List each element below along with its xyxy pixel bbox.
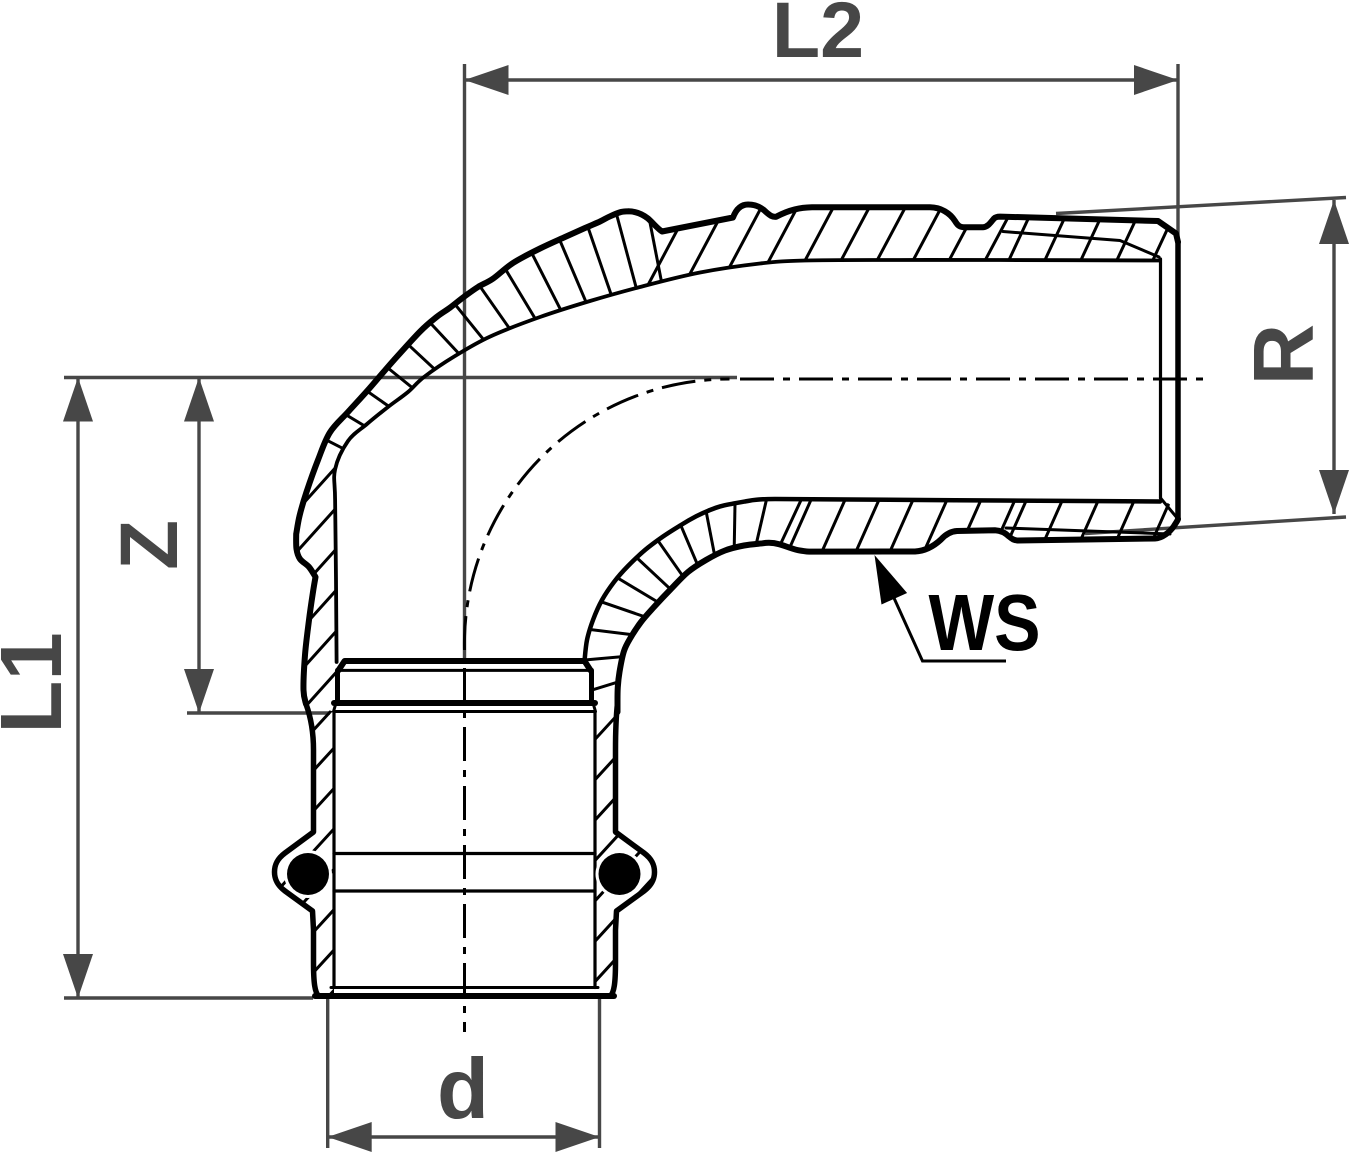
centerline vertical socket axis — [463, 668, 466, 1032]
arrowhead d right — [556, 1122, 600, 1152]
end face bottom chamfer — [1161, 498, 1179, 519]
svg-text:L1: L1 — [0, 632, 80, 734]
socket collar left side — [335, 670, 340, 703]
svg-text:R: R — [1237, 324, 1332, 385]
o-ring left seal cross-section — [287, 853, 329, 895]
arrowhead d left — [328, 1122, 372, 1152]
o-ring left white surround — [284, 850, 332, 898]
socket outer wall right with o-ring bulge — [611, 703, 655, 996]
bottom outer contour: inner bend, pipe bottom, thread crest — [618, 519, 1179, 712]
dimension d left extension line — [326, 997, 329, 1148]
socket collar right side — [589, 670, 594, 703]
svg-text:L2: L2 — [772, 0, 864, 74]
svg-text:d: d — [437, 1042, 489, 1137]
dimension Z line — [197, 378, 200, 714]
o-ring right white surround — [596, 850, 644, 898]
dimension L1 bottom extension line — [64, 996, 313, 999]
hatch elbow left leg — [10, 430, 591, 747]
o-ring groove interior top line — [334, 852, 595, 855]
arrowhead L2 left — [465, 65, 509, 95]
hatch top thread zone — [1002, 205, 1215, 275]
dimension d line — [328, 1135, 600, 1138]
socket inner wall right — [593, 712, 596, 988]
end face outer — [1175, 242, 1181, 519]
hatch bottom straight run — [782, 485, 1022, 565]
arrowhead Z top — [184, 378, 214, 422]
arrowhead L1 bottom — [63, 954, 93, 998]
end face inner (bore end) — [1159, 259, 1162, 498]
socket mouth outer line — [315, 993, 614, 999]
WS leader arrowhead — [875, 555, 908, 605]
dimension L2 extension line left (socket axis) — [463, 64, 466, 660]
hatch bottom thread zone — [1002, 490, 1211, 555]
socket mouth inner line — [331, 986, 598, 989]
outer contour: left wall, crown, pipe top, thread crest — [296, 205, 1178, 705]
dimension R bottom oblique extension line — [1085, 517, 1346, 534]
hatch socket left wall — [20, 660, 896, 1010]
bore inner line (bottom wall inner surface) — [585, 499, 1161, 661]
dimension L1 and Z shared top extension line — [64, 376, 737, 379]
dimension L1 line — [76, 378, 79, 999]
o-ring groove interior bottom line — [334, 889, 595, 892]
WS leader line — [894, 598, 1006, 661]
dimension L2 line — [465, 78, 1179, 81]
socket collar second line — [338, 669, 590, 672]
svg-text:WS: WS — [928, 577, 1040, 667]
dimension R top oblique extension line — [1056, 198, 1346, 214]
arrowhead R bottom — [1319, 470, 1349, 514]
arrowhead Z bottom — [184, 669, 214, 713]
socket collar top line with chamfers — [338, 661, 590, 670]
arrowhead L1 top — [63, 378, 93, 422]
thread root line bottom — [1006, 528, 1170, 534]
socket inner wall left — [332, 712, 335, 988]
hatch elbow bend fan (outer wall) — [269, 137, 678, 518]
svg-text:Z: Z — [104, 520, 195, 570]
centerline bend axis arc — [464, 379, 729, 650]
o-ring right seal cross-section — [599, 853, 641, 895]
hatch top straight run — [648, 195, 1020, 285]
dimension L2 extension line right — [1176, 64, 1179, 378]
thread root line top — [1003, 232, 1159, 258]
centerline horizontal pipe axis — [740, 378, 1210, 381]
socket outer wall left with o-ring bulge — [275, 704, 319, 996]
dimension R line — [1332, 200, 1335, 514]
arrowhead R top — [1319, 200, 1349, 244]
arrowhead L2 right — [1134, 65, 1178, 95]
dimension d right extension line — [598, 997, 601, 1148]
hatch socket right wall — [310, 660, 1186, 1010]
socket collar bottom line — [334, 700, 595, 706]
socket step line with chamfers — [334, 703, 596, 712]
hatch bottom bend fan (inner wall) — [484, 397, 839, 720]
bore outer line (top wall inner surface) — [334, 260, 1159, 662]
dimension Z bottom extension line — [187, 711, 330, 714]
